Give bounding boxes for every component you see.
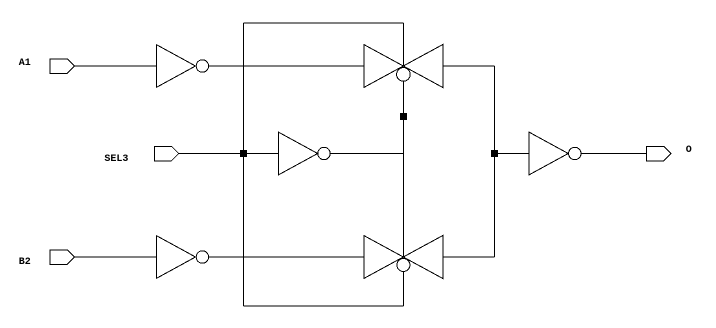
wire SEL loop left vertical bbox=[242, 23, 244, 306]
wire top gate control from SEL loop bbox=[402, 23, 404, 66]
transmission gate TG1 (top) bbox=[364, 45, 443, 88]
wire right bus vertical bbox=[493, 66, 495, 257]
svg-text:O: O bbox=[686, 145, 692, 156]
inverter U4 (output) bbox=[529, 132, 581, 175]
junction node on right bus bbox=[491, 150, 498, 157]
svg-text:A1: A1 bbox=[19, 58, 31, 69]
junction node on SELB vertical bbox=[400, 113, 407, 120]
wire B2 port to inverter bbox=[75, 256, 157, 258]
output port O bbox=[647, 146, 672, 161]
wire U1 output to top transmission gate bbox=[209, 65, 364, 67]
wire SEL loop bottom edge bbox=[243, 305, 403, 307]
transmission gate TG2 (bottom) bbox=[364, 236, 443, 279]
wire A1 port to inverter bbox=[75, 65, 157, 67]
wire SEL3 port to inverter U2 bbox=[179, 153, 279, 155]
wire right bus to output inverter bbox=[494, 153, 529, 155]
input port B2 bbox=[50, 250, 75, 265]
svg-text:SEL3: SEL3 bbox=[104, 154, 128, 165]
wire TG1 output to right bus bbox=[443, 65, 495, 67]
junction node at SEL loop tap bbox=[240, 150, 247, 157]
wire U3 output to bottom transmission gate bbox=[209, 256, 364, 258]
input port A1 bbox=[50, 59, 75, 74]
wire U4 output to port O bbox=[581, 153, 647, 155]
wire bottom gate bubble to SEL loop bottom bbox=[402, 272, 404, 306]
wire SELB vertical bbox=[402, 81, 404, 257]
wire TG2 output to right bus bbox=[443, 256, 495, 258]
wire SEL loop top edge bbox=[243, 22, 403, 24]
inverter U2 (SEL) bbox=[279, 132, 331, 175]
svg-text:B2: B2 bbox=[19, 257, 31, 268]
wire U2 output to SELB vertical bbox=[330, 153, 403, 155]
inverter U1 (A input) bbox=[157, 45, 209, 88]
inverter U3 (B input) bbox=[157, 236, 209, 279]
input port SEL3 bbox=[154, 146, 179, 161]
